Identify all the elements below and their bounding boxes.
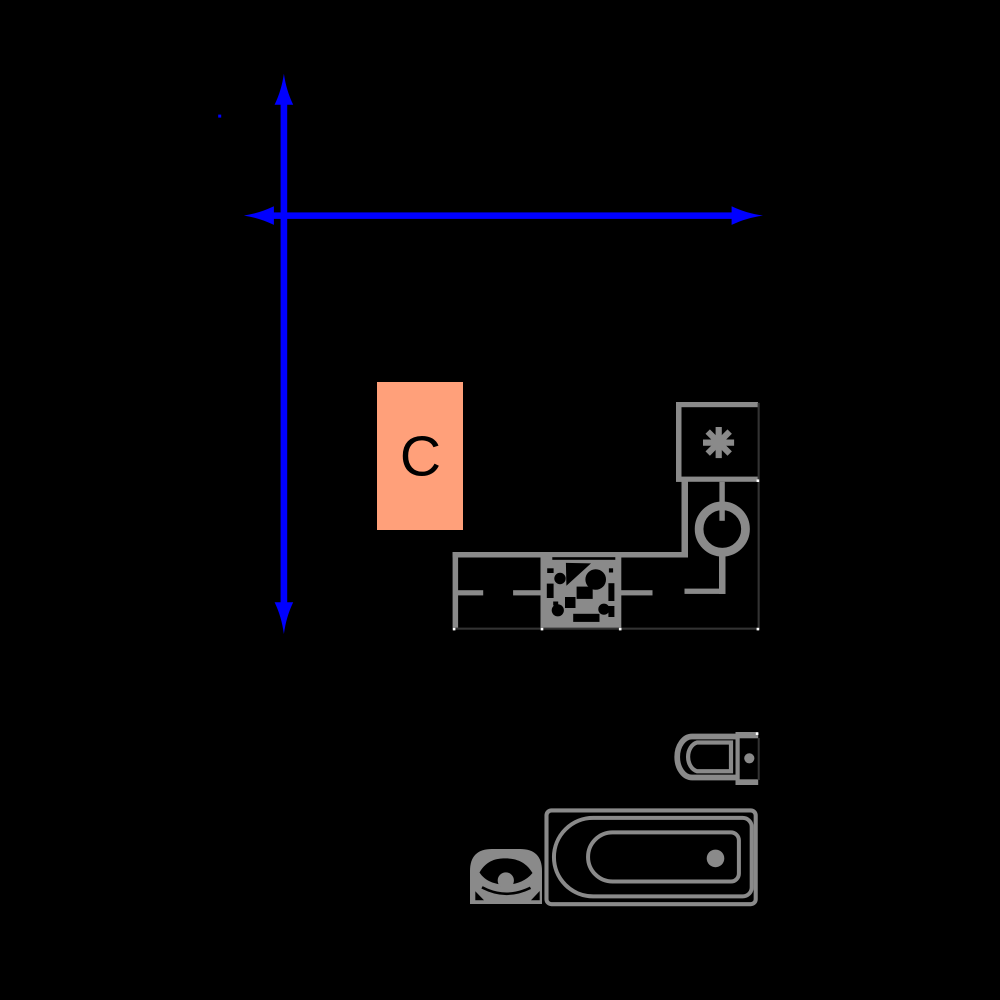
svg-text:C: C (400, 425, 441, 489)
